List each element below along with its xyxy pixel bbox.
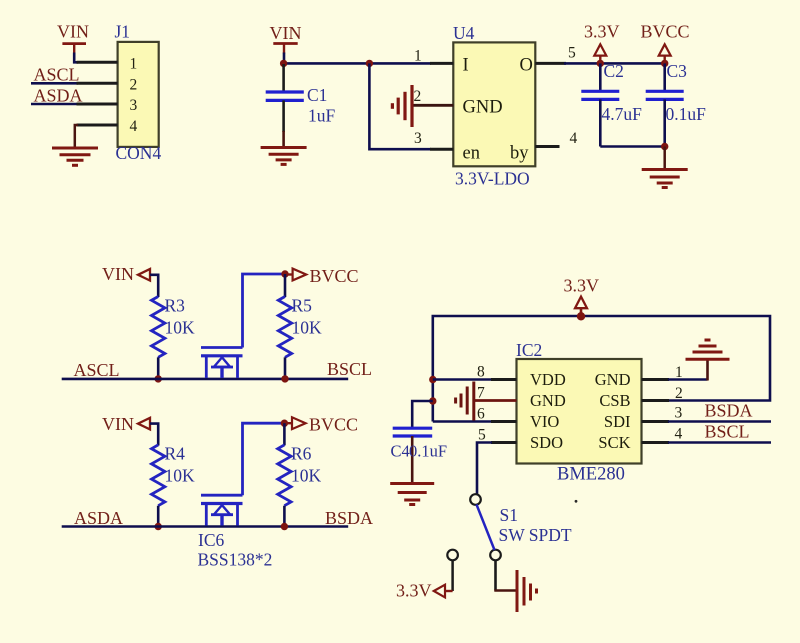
svg-text:0.1uF: 0.1uF	[666, 104, 707, 124]
wire C2 to C3 ground	[600, 145, 664, 148]
wire VIN to R3	[150, 275, 158, 297]
wire ASDA	[31, 103, 78, 106]
resistor R5	[284, 274, 287, 297]
transistor Q2 BSS138 half B	[201, 495, 243, 525]
svg-text:VDD: VDD	[530, 370, 566, 389]
svg-text:IC6: IC6	[198, 530, 225, 550]
svg-text:en: en	[463, 144, 480, 164]
svg-text:VIO: VIO	[530, 412, 559, 431]
transistor Q1 BSS138 half A	[201, 348, 243, 378]
stray dot mark	[575, 500, 578, 503]
svg-text:2: 2	[414, 88, 422, 105]
connector J1 pin 3	[77, 103, 118, 106]
junction 3.3V	[597, 60, 604, 67]
svg-text:VIN: VIN	[57, 22, 89, 42]
ground (C4)	[390, 484, 434, 505]
ground (C2/C3)	[642, 170, 688, 188]
svg-text:1: 1	[414, 48, 422, 65]
svg-text:3: 3	[675, 405, 683, 422]
junction U4 input branch	[366, 60, 373, 67]
wire to ground	[663, 147, 666, 170]
junction R4/ASDA	[155, 523, 162, 530]
svg-text:CON4: CON4	[116, 143, 162, 163]
wire VIN to J1 pin 1	[74, 53, 78, 63]
svg-text:R5: R5	[292, 296, 313, 316]
svg-text:CSB: CSB	[599, 391, 630, 410]
IC2 pin 5	[491, 441, 517, 444]
svg-text:3.3V: 3.3V	[564, 276, 600, 296]
svg-text:4.7uF: 4.7uF	[602, 104, 643, 124]
svg-text:SW SPDT: SW SPDT	[499, 525, 572, 545]
svg-text:O: O	[520, 56, 533, 76]
ground (C1)	[261, 148, 307, 165]
wire VIN to U4 pin 1	[284, 53, 431, 64]
wire 3.3V rail	[433, 316, 770, 422]
power flag BVCC (R6)	[284, 422, 292, 424]
svg-text:BSCL: BSCL	[327, 359, 372, 379]
svg-text:6: 6	[477, 406, 485, 423]
IC2 pin 7	[475, 399, 517, 402]
svg-text:SDI: SDI	[604, 412, 631, 431]
junction C4 branch	[429, 397, 436, 404]
svg-text:IC2: IC2	[516, 340, 542, 360]
svg-text:10K: 10K	[165, 318, 196, 338]
svg-text:I: I	[463, 56, 469, 76]
capacitor C3	[663, 63, 666, 91]
U4 pin 2	[413, 104, 453, 107]
svg-text:8: 8	[477, 364, 485, 381]
svg-text:BSS138*2: BSS138*2	[198, 550, 273, 570]
connector J1 body	[118, 42, 159, 147]
wire SDO to switch	[477, 443, 492, 495]
svg-text:BME280: BME280	[557, 465, 625, 485]
IC2 pin 8	[491, 378, 517, 381]
svg-text:BSDA: BSDA	[705, 401, 753, 421]
wire pin 1 to ground	[668, 378, 708, 381]
U4 pin 4 bypass	[535, 145, 559, 148]
connector J1 pin 1	[77, 61, 118, 64]
wire to C4	[412, 401, 433, 428]
svg-text:BSDA: BSDA	[325, 508, 373, 528]
ground (S1)	[517, 570, 537, 612]
wire BSCL	[668, 441, 771, 444]
connector J1 pin 2	[77, 82, 118, 85]
svg-text:U4: U4	[453, 23, 475, 43]
svg-text:3.3V: 3.3V	[396, 581, 432, 601]
junction R3/ASCL	[155, 375, 162, 382]
svg-text:BVCC: BVCC	[310, 266, 359, 286]
wire ASDA bus	[62, 525, 349, 528]
wire BSDA	[668, 420, 771, 423]
svg-text:VIN: VIN	[270, 23, 302, 43]
wire Q1 drain to BVCC	[243, 274, 286, 348]
resistor R6	[283, 423, 286, 445]
capacitor C2	[599, 63, 602, 91]
wire to VIO pin 6	[433, 420, 492, 423]
svg-text:SCK: SCK	[598, 433, 630, 452]
svg-text:5: 5	[478, 427, 486, 444]
IC2 pin 1	[642, 378, 670, 381]
ground (IC2 pin 1)	[686, 340, 730, 359]
switch S1	[447, 494, 501, 560]
resistor R4	[152, 445, 165, 506]
junction R6/BSDA	[281, 523, 288, 530]
wire ASCL bus	[62, 378, 349, 381]
svg-text:BVCC: BVCC	[641, 22, 690, 42]
svg-text:R4: R4	[165, 444, 186, 464]
svg-text:3.3V: 3.3V	[584, 22, 620, 42]
wire S1 common to ground	[494, 560, 497, 590]
svg-text:SDO: SDO	[530, 433, 563, 452]
svg-text:by: by	[510, 144, 529, 164]
svg-text:3: 3	[414, 130, 422, 147]
U4 pin 3	[430, 148, 453, 151]
svg-text:2: 2	[675, 385, 683, 402]
svg-text:10K: 10K	[292, 318, 323, 338]
IC2 pin 6	[491, 420, 517, 423]
junction BVCC/R6	[281, 420, 288, 427]
wire Q2 drain to BVCC	[243, 423, 285, 495]
wire VIN to R4	[150, 424, 158, 446]
junction C3 ground	[661, 143, 668, 150]
svg-text:R3: R3	[165, 296, 186, 316]
svg-text:2: 2	[130, 77, 138, 94]
svg-text:0.1uF: 0.1uF	[409, 442, 447, 461]
junction VDD branch	[429, 376, 436, 383]
svg-text:C3: C3	[667, 61, 688, 81]
regulator U4 body	[453, 42, 535, 166]
svg-text:VIN: VIN	[102, 414, 134, 434]
svg-text:BVCC: BVCC	[309, 415, 358, 435]
svg-text:S1: S1	[500, 505, 518, 525]
svg-text:R6: R6	[291, 444, 312, 464]
junction BVCC	[661, 60, 668, 67]
svg-text:4: 4	[570, 130, 578, 147]
svg-text:C4: C4	[391, 442, 410, 461]
IC2 pin 4	[642, 441, 670, 444]
wire ASCL	[31, 82, 78, 85]
junction VIN/C1	[280, 60, 287, 67]
U4 pin 5 output	[535, 62, 566, 65]
svg-text:3.3V-LDO: 3.3V-LDO	[455, 169, 530, 189]
U4 pin 1	[430, 62, 453, 65]
junction R5/BSCL	[281, 375, 288, 382]
ground (U4 pin 2)	[392, 85, 412, 127]
junction 3.3V rail	[577, 312, 585, 320]
wire U4 output to caps	[564, 62, 665, 65]
svg-text:C1: C1	[307, 85, 327, 105]
svg-text:ASDA: ASDA	[74, 508, 123, 528]
svg-text:1uF: 1uF	[308, 106, 336, 126]
junction BVCC/R5	[281, 270, 288, 277]
svg-text:C2: C2	[604, 61, 624, 81]
svg-text:4: 4	[675, 426, 683, 443]
power flag BVCC (R5)	[285, 273, 293, 275]
svg-text:3: 3	[130, 97, 138, 114]
svg-text:5: 5	[568, 45, 576, 62]
wire J1 pin 4 to ground	[75, 125, 78, 147]
wire U4 enable	[369, 63, 431, 149]
capacitor C4	[393, 427, 433, 430]
svg-text:ASCL: ASCL	[74, 360, 120, 380]
svg-text:VIN: VIN	[102, 264, 134, 284]
svg-text:ASCL: ASCL	[34, 65, 80, 85]
svg-text:ASDA: ASDA	[34, 86, 83, 106]
ground (J1)	[52, 148, 98, 165]
IC2 body	[517, 359, 642, 464]
svg-text:J1: J1	[115, 22, 131, 42]
IC2 pin 3	[642, 420, 670, 423]
svg-text:4: 4	[130, 118, 138, 135]
IC2 pin 2	[642, 399, 670, 402]
svg-text:GND: GND	[463, 98, 503, 118]
svg-text:7: 7	[477, 385, 485, 402]
svg-text:BSCL: BSCL	[705, 422, 750, 442]
capacitor C1	[282, 64, 285, 92]
power flag 3.3V (S1)	[434, 585, 445, 598]
wire S1 throw to 3.3V	[451, 560, 454, 591]
svg-text:GND: GND	[595, 370, 631, 389]
ground (IC2 pin 7)	[456, 382, 474, 421]
svg-text:10K: 10K	[165, 466, 196, 486]
connector J1 pin 4	[77, 124, 118, 127]
wire to VDD pin 8	[433, 378, 492, 381]
svg-text:1: 1	[130, 56, 138, 73]
svg-text:10K: 10K	[291, 466, 322, 486]
resistor R3	[152, 297, 165, 358]
svg-text:GND: GND	[530, 391, 566, 410]
